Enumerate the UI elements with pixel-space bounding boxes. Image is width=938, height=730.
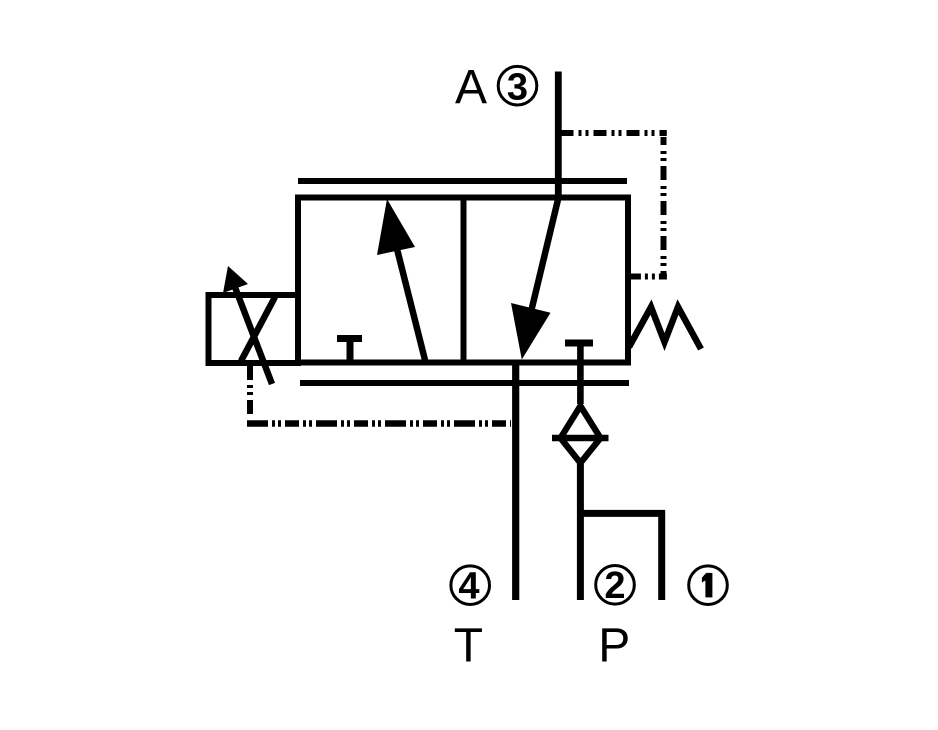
return spring	[629, 307, 701, 349]
flow arrow right position	[511, 197, 559, 360]
svg-text:A: A	[455, 61, 487, 114]
check valve	[552, 406, 609, 463]
pilot valve box	[209, 295, 299, 363]
valve envelope	[298, 198, 628, 363]
svg-text:3: 3	[507, 67, 528, 109]
flow arrow left position	[377, 199, 425, 360]
blocked port right position	[565, 343, 593, 404]
valve second-position line bottom	[300, 380, 629, 386]
position divider	[461, 198, 467, 363]
wire branch P to port 1	[580, 513, 662, 600]
wire A (port 3 line)	[555, 72, 562, 201]
port number 4	[451, 566, 490, 608]
pilot adjustment arrowhead	[223, 266, 248, 293]
port number 1	[689, 566, 728, 605]
pilot line from A to spring end (dash-dot)	[561, 130, 667, 136]
svg-text:4: 4	[458, 566, 479, 608]
wire P (port 2 line)	[577, 464, 584, 600]
pilot drain line (dash-dot)	[247, 366, 253, 417]
port number 2	[596, 565, 635, 607]
valve second-position line top	[298, 178, 627, 184]
wire T (port 4 line)	[512, 362, 519, 600]
svg-text:P: P	[598, 620, 630, 673]
svg-text:T: T	[454, 620, 483, 673]
pilot valve diagonal 1	[233, 282, 272, 384]
blocked port left position	[337, 339, 362, 362]
port number 3	[498, 66, 537, 108]
svg-text:2: 2	[604, 565, 625, 607]
pilot valve diagonal 2	[241, 297, 275, 361]
